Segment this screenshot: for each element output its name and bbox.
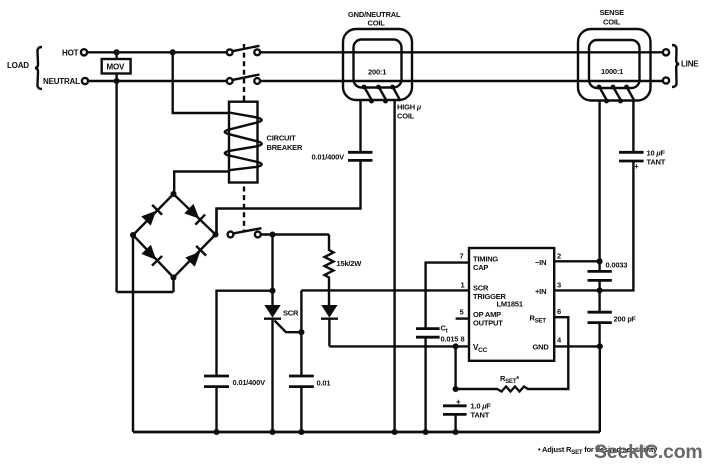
circuit breaker body [229,102,258,183]
wire bridge minus down-run [132,235,134,432]
wire gate cap to rail [300,387,302,432]
svg-text:1.0 μF: 1.0 μF [471,402,492,411]
node bridge top [170,191,176,197]
switch blade NEUTRAL [233,75,260,80]
transformer T2 core inner [589,40,640,88]
svg-text:1: 1 [461,281,465,290]
node bridge left [130,232,136,238]
svg-text:HOT: HOT [62,49,79,58]
wire SCR anode vertical [271,235,273,306]
svg-text:OUTPUT: OUTPUT [473,319,503,328]
svg-text:COIL: COIL [603,18,621,27]
wire MOV bottom to neutral [115,74,117,82]
capacitor 0.01 gate [289,376,330,388]
switch blade DC [233,228,261,233]
svg-text:7: 7 [460,252,464,261]
svg-text:6: 6 [557,307,561,316]
wire SCR trigger line pin1 [301,289,469,291]
wire VCC down to Rset node [454,346,456,389]
wire pin4 [554,345,600,347]
switch pole DC contacts [228,232,234,238]
transformer T1 core inner [354,40,402,88]
pin 5 stub [456,317,469,319]
wire T2 winding left down [598,100,600,262]
svg-text:0.01/400V: 0.01/400V [233,378,266,387]
resistor RSET* [456,317,569,391]
node HOT-MOV junction [114,49,120,55]
switch pole HOT contacts [227,49,233,55]
capacitor 10uF TANT [619,149,666,172]
wire NEUTRAL line segment [260,80,663,82]
svg-text:CAP: CAP [473,263,488,272]
wire pin2 [554,260,599,262]
wire gate node up to trigger line [300,290,302,332]
mechanical link dashed lower [243,187,245,232]
diode D1 supply [321,305,338,346]
node Rset top [453,386,459,392]
terminal HOT load [81,49,87,55]
svg-text:COIL: COIL [397,112,415,121]
svg-text:TRIGGER: TRIGGER [473,292,507,301]
switch blade HOT [233,46,260,51]
wire HOT line segment [260,51,663,53]
capacitor 0.0033 [588,261,628,291]
svg-text:COIL: COIL [368,19,386,28]
svg-text:TANT: TANT [647,158,666,167]
svg-text:0.01: 0.01 [317,379,331,388]
wire ground rail [133,431,600,434]
wire pin3 [554,289,599,291]
terminal NEUTRAL load [82,78,88,84]
wire bridge bottom vertical [172,278,174,293]
node SCR gate [298,329,304,335]
svg-text:NEUTRAL: NEUTRAL [43,77,80,86]
capacitor 0.01/400V snubber [204,376,265,387]
MOV varistor [102,59,131,74]
wire T1 winding left down [359,100,361,153]
bridge diode upper-right [184,204,205,225]
svg-text:8: 8 [461,335,465,344]
capacitor 0.01/400V line filter [312,152,373,161]
wire neutral down-run [115,81,117,292]
wire CT to rail [424,337,426,432]
capacitor 200pF [588,290,637,346]
bridge rectifier frame [133,194,216,278]
brace line [672,45,679,87]
svg-text:200 pF: 200 pF [614,315,637,324]
node pin3 junction [597,287,603,293]
svg-text:TANT: TANT [471,411,490,420]
node SCR anode top [269,231,275,237]
wire breaker out to bridge top [174,172,229,195]
wire switch to node [261,233,329,235]
bridge diode upper-left [141,205,162,226]
node pin2 junction [597,258,603,264]
wire gate node down [300,332,302,376]
wire VCC rail horizontal [329,345,469,347]
svg-text:+: + [634,162,639,171]
wire HOT tap down [173,52,229,113]
node rail SCR [269,429,275,435]
wire timing cap pin7 [426,263,469,329]
wire MOV top [115,52,117,59]
node rail 0.01/400V [213,429,219,435]
capacitor CT 0.015 [416,324,458,344]
transformer T1 gnd/neutral coil core outer [343,29,412,100]
svg-text:0.01/400V: 0.01/400V [312,153,345,162]
T1 secondary winding [362,85,401,104]
svg-text:1000:1: 1000:1 [601,67,623,76]
brace load [35,47,42,89]
svg-text:2: 2 [557,252,561,261]
terminal LINE hot [663,49,669,55]
node GND junction [597,343,603,349]
wire cap to rail [215,387,217,432]
svg-text:GND: GND [533,343,550,352]
wire 1uF to rail [454,414,456,432]
wire HOT load segment [87,51,226,53]
SCR Q1 [264,305,301,432]
svg-text:+IN: +IN [535,287,546,296]
wire bridge plus up-tap [215,209,217,235]
svg-text:SeekIC.com: SeekIC.com [594,441,703,463]
transformer T2 sense coil core outer [578,29,651,101]
node mid-left junction [269,288,275,294]
wire cap to bridge plus [217,160,361,234]
svg-text:−IN: −IN [535,258,546,267]
svg-text:15k/2W: 15k/2W [337,259,363,268]
node rail coil [392,429,398,435]
wire GND down-run [599,346,601,432]
node VCC junction [453,343,459,349]
bridge diode lower-right [185,246,206,267]
svg-text:LINE: LINE [681,60,699,69]
wire NEUTRAL load segment [88,80,226,82]
svg-text:CIRCUIT: CIRCUIT [267,134,297,143]
wire T1 winding right down [393,100,395,433]
node rail CT [423,429,429,435]
node HOT tap junction [170,49,176,55]
node NEUTRAL-MOV junction [114,78,120,84]
T2 secondary winding [597,85,635,104]
wire 10uF down and jog to pin3 [600,161,634,290]
wire neutral to bridge bottom [117,291,174,293]
node rail 0.01 [298,429,304,435]
svg-text:0.0033: 0.0033 [606,261,628,270]
node bridge right [212,231,218,237]
node bridge bottom [170,274,176,280]
terminal LINE neutral [663,77,669,83]
wire T2 winding right down [632,100,634,153]
circuit breaker coil [225,113,262,171]
svg-text:HIGH μ: HIGH μ [397,103,422,112]
capacitor 1.0uF TANT [443,398,491,420]
svg-text:BREAKER: BREAKER [267,143,303,152]
svg-text:SCR: SCR [283,309,299,318]
svg-text:SENSE: SENSE [600,8,625,17]
svg-text:0.015: 0.015 [441,335,459,344]
svg-text:200:1: 200:1 [368,68,386,77]
svg-text:MOV: MOV [107,63,125,72]
bridge diode lower-left [141,245,162,266]
svg-text:3: 3 [557,281,561,290]
resistor 15k/2W [325,235,363,306]
svg-text:5: 5 [460,308,464,317]
mechanical link dashed upper [243,44,245,101]
node rail 1uF [453,429,459,435]
op-amp IC U1 LM1851 body [469,248,554,361]
svg-text:LOAD: LOAD [7,61,29,70]
wire left cap branch [217,291,273,376]
svg-text:10 μF: 10 μF [647,149,666,158]
switch pole NEUTRAL contacts [227,78,233,84]
